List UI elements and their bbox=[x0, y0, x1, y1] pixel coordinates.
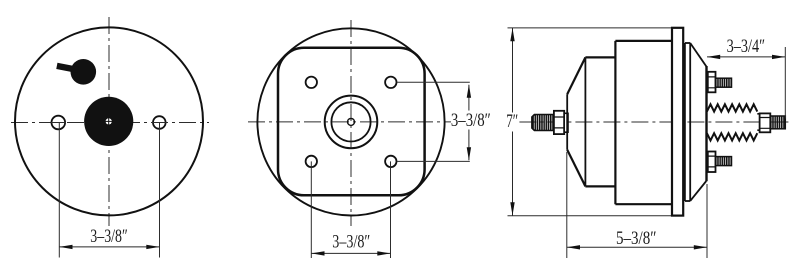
mounting plate rounded square view2 bbox=[278, 48, 425, 196]
body bottom edge view3 bbox=[615, 203, 672, 205]
vertical centerline view1 bbox=[108, 17, 110, 226]
svg-text:3–3/8″: 3–3/8″ bbox=[332, 232, 370, 253]
rod stubs to nut view3 bbox=[757, 114, 759, 130]
extension line top-right hole to right view2 bbox=[397, 81, 470, 83]
check valve stub view1 bbox=[60, 67, 75, 70]
front band top edge view3 bbox=[585, 56, 615, 58]
svg-text:3–3/4″: 3–3/4″ bbox=[727, 36, 766, 57]
end nut view3 bbox=[760, 113, 771, 132]
rear ring flange view3 bbox=[672, 28, 683, 216]
pushrod center cross view1 bbox=[105, 117, 114, 125]
booster shell outline circle view1 bbox=[15, 27, 203, 215]
mounting face plate view3 bbox=[705, 66, 707, 181]
body front edge view3 bbox=[614, 41, 616, 204]
front cone upper slant view3 bbox=[567, 57, 585, 94]
front cone lower slant view3 bbox=[567, 150, 585, 187]
bolt hole top-right view2 bbox=[385, 77, 396, 88]
5-3/8 left extension line view3 bbox=[566, 152, 568, 258]
bottom dimension line 3-3/8 view2 bbox=[311, 252, 390, 254]
dimension arrows view1 bbox=[59, 245, 72, 249]
extension line left view1 bbox=[58, 123, 60, 258]
extension line right view1 bbox=[159, 123, 161, 258]
front cone tip edge view3 bbox=[566, 94, 568, 150]
vertical centerline view2 bbox=[350, 20, 352, 226]
svg-text:3–3/8″: 3–3/8″ bbox=[451, 110, 491, 131]
top stud block flats view3 bbox=[708, 77, 716, 88]
pushrod tiny circle view2 bbox=[348, 118, 355, 125]
left mounting hole view1 bbox=[52, 116, 66, 130]
5-3/8 right extension line view3 bbox=[706, 184, 708, 258]
7in dimension line bbox=[512, 28, 514, 216]
rear shell bottom slant view3 bbox=[690, 181, 706, 201]
vertical dimension arrows view2 bbox=[467, 85, 471, 98]
hub collar view3 bbox=[564, 113, 568, 132]
3-3/4 dimension line view3 bbox=[707, 56, 785, 58]
extension line bottom-right hole view2 bbox=[390, 161, 392, 258]
bellows bottom zigzag view3 bbox=[707, 133, 757, 140]
top stud block view3 bbox=[708, 72, 716, 93]
hub boss outer circle view2 bbox=[325, 96, 378, 149]
right mounting hole view1 bbox=[153, 116, 166, 129]
svg-text:3–3/8″: 3–3/8″ bbox=[90, 226, 128, 247]
horizontal centerline view2 bbox=[248, 121, 451, 123]
pushrod center hole view1 bbox=[106, 118, 112, 124]
3-3/4 dimension arrows view3 bbox=[707, 55, 720, 59]
svg-text:5–3/8″: 5–3/8″ bbox=[616, 228, 657, 249]
hole centerline ticks view1 bbox=[51, 122, 167, 124]
bottom stud block flats view3 bbox=[708, 156, 716, 167]
check valve knob view1 bbox=[71, 59, 97, 85]
bolt hole bottom-right view2 bbox=[385, 156, 396, 167]
rear shell top slant view3 bbox=[690, 43, 706, 66]
extension line bottom-right hole to right view2 bbox=[397, 160, 470, 162]
svg-text:7″: 7″ bbox=[506, 111, 518, 132]
hub boss inner circle view2 bbox=[331, 102, 370, 141]
7in dimension arrows bbox=[510, 28, 514, 41]
rear shell bottom nub view3 bbox=[685, 200, 690, 202]
end nut flats view3 bbox=[760, 118, 771, 129]
bolt hole top-left view2 bbox=[306, 77, 317, 88]
front cone base edge view3 bbox=[584, 57, 586, 186]
pushrod hex nut view3 bbox=[554, 111, 564, 134]
bottom dimension arrows view2 bbox=[311, 251, 324, 255]
bolt hole bottom-left view2 bbox=[306, 156, 317, 167]
5-3/8 dimension line view3 bbox=[567, 246, 707, 248]
horizontal centerline view3 bbox=[519, 121, 791, 123]
7in top extension line bbox=[508, 27, 672, 29]
rear shell cylinder vertical view3 bbox=[689, 43, 691, 201]
shell outline circle view2 bbox=[257, 28, 444, 215]
5-3/8 dimension arrows view3 bbox=[567, 245, 580, 249]
pushrod nut flats view3 bbox=[554, 117, 564, 128]
3-3/4 right extension line view3 bbox=[784, 47, 786, 119]
rear shell top nub view3 bbox=[685, 42, 690, 44]
bellows top zigzag view3 bbox=[707, 104, 757, 111]
top stud thread view3 bbox=[716, 78, 732, 87]
bottom stud block view3 bbox=[708, 152, 716, 173]
horizontal centerline view1 bbox=[11, 122, 209, 124]
bottom stud thread view3 bbox=[716, 157, 732, 166]
end thread view3 bbox=[770, 116, 785, 129]
rear shell edge vertical view3 bbox=[684, 43, 686, 201]
7in bottom extension line bbox=[508, 215, 672, 217]
vertical dimension line 3-3/8 view2 bbox=[468, 85, 470, 161]
pushrod thread view3 bbox=[532, 115, 554, 131]
front band bottom edge view3 bbox=[585, 185, 615, 187]
center hub (black) view1 bbox=[84, 97, 133, 146]
body top edge view3 bbox=[615, 40, 672, 42]
dimension line 3-3/8 view1 bbox=[59, 246, 159, 248]
extension line bottom-left hole view2 bbox=[310, 161, 312, 258]
